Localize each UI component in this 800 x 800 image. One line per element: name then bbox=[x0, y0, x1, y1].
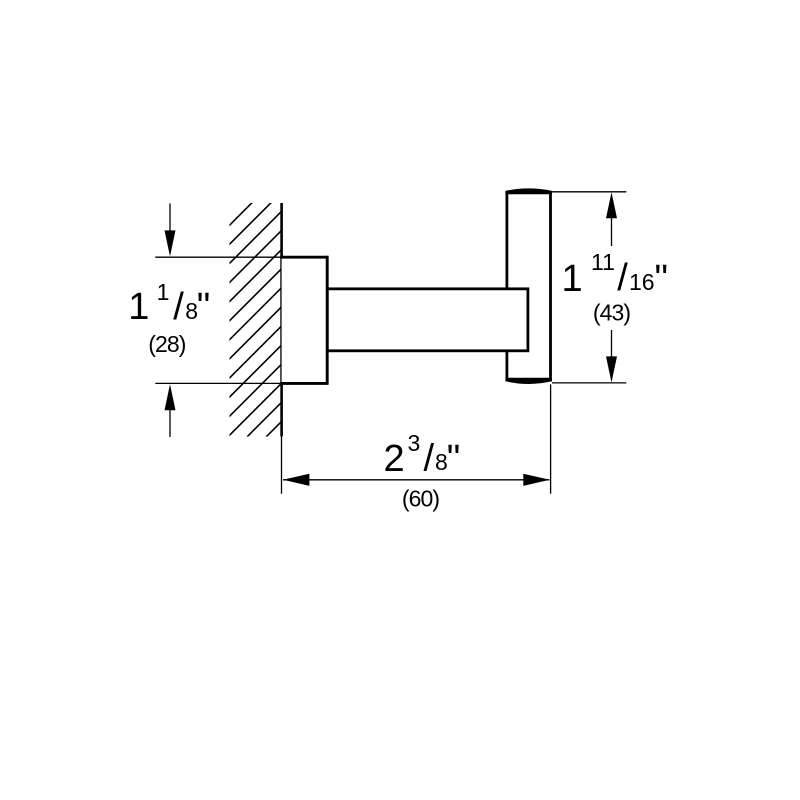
svg-text:": " bbox=[447, 438, 461, 480]
svg-text:16: 16 bbox=[629, 269, 655, 295]
svg-text:3: 3 bbox=[408, 430, 421, 456]
bottom extension line left (wall line continuation) bbox=[281, 437, 283, 494]
wall hatching bbox=[0, 190, 513, 490]
svg-text:(43): (43) bbox=[593, 300, 631, 326]
extension line right top bbox=[552, 191, 626, 193]
svg-text:/: / bbox=[424, 438, 435, 480]
extension line right bottom bbox=[552, 382, 626, 384]
svg-text:(28): (28) bbox=[148, 331, 186, 357]
bottom dimension line with arrows bbox=[283, 474, 550, 486]
left dimension line with arrows bbox=[165, 203, 176, 437]
svg-text:(60): (60) bbox=[402, 486, 440, 512]
svg-text:": " bbox=[197, 286, 211, 328]
hook top cap bbox=[505, 188, 552, 194]
right dimension line with arrows bbox=[606, 192, 617, 382]
label 1 1/8" (left dimension) bbox=[128, 279, 210, 328]
label 2 3/8" (bottom dimension) bbox=[384, 430, 461, 480]
wall edge line bbox=[280, 203, 283, 437]
svg-text:1: 1 bbox=[157, 279, 170, 305]
bottom extension line right (hook edge continuation) bbox=[550, 384, 552, 493]
extension line left bottom bbox=[155, 382, 281, 384]
svg-text:": " bbox=[655, 258, 669, 300]
svg-text:1: 1 bbox=[128, 286, 149, 328]
svg-text:2: 2 bbox=[384, 438, 405, 480]
extension line left top bbox=[155, 256, 281, 258]
wall plate bbox=[280, 256, 327, 385]
svg-text:/: / bbox=[173, 286, 184, 328]
svg-text:1: 1 bbox=[562, 258, 583, 300]
hook bottom cap bbox=[505, 378, 552, 384]
hook end plate bbox=[506, 190, 552, 383]
svg-text:/: / bbox=[617, 257, 628, 299]
svg-text:11: 11 bbox=[591, 249, 615, 275]
arm (horizontal bar) bbox=[327, 289, 528, 351]
label 1 11/16" (right dimension) bbox=[562, 249, 669, 300]
